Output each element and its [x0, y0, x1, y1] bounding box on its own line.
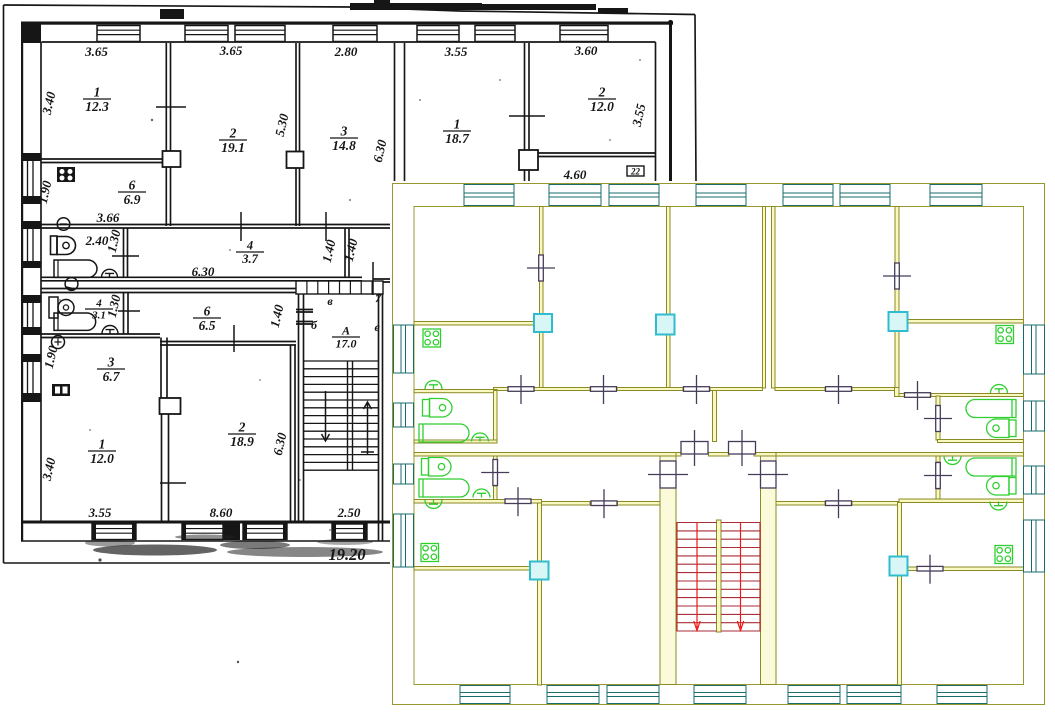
stove kitchen1 — [57, 167, 75, 182]
room label 3/6.7 — [97, 355, 125, 385]
scan frame right edge — [695, 15, 696, 184]
scan frame top edge — [4, 5, 696, 15]
wall corridor top 5 — [852, 388, 896, 391]
wall stairwell left wall a — [660, 456, 676, 461]
door corridor 2 — [591, 375, 617, 404]
windows: left wall — [394, 325, 414, 373]
svg-text:6: 6 — [204, 304, 211, 319]
wall V3b upper — [772, 207, 776, 389]
scan smudges bottom — [59, 59, 641, 663]
sink upper-right kitchen — [991, 385, 1008, 394]
windows: bottom band — [460, 686, 510, 704]
svg-text:6.5: 6.5 — [199, 318, 216, 333]
wall corridor top 0 — [494, 388, 509, 391]
CAD inner wall boundary — [414, 207, 1024, 685]
door lower-right room — [826, 489, 852, 518]
door bath lower-right — [924, 463, 952, 489]
room label 1/12.3 — [83, 85, 111, 115]
svg-text:12.0: 12.0 — [590, 99, 614, 114]
wall kitchen divider lower-left — [414, 567, 530, 571]
svg-text:3.66: 3.66 — [96, 210, 120, 225]
bottom wall window end bars — [92, 524, 367, 541]
exterior left wall inner line — [40, 42, 42, 522]
svg-text:22: 22 — [630, 167, 641, 177]
flue square room2/3 — [287, 152, 304, 169]
wall kitchen divider lower-right b — [943, 567, 1024, 571]
svg-text:18.9: 18.9 — [230, 434, 254, 449]
wall stairwell right wall a — [761, 456, 777, 461]
wall kitchen divider lower-right a — [907, 567, 918, 571]
exterior top wall outer line — [25, 22, 673, 25]
wall vestibule centre wall — [713, 391, 717, 442]
room label 6/6.9 — [118, 178, 146, 208]
vestibule door right — [729, 430, 756, 466]
wall corridor top 1 — [534, 388, 590, 391]
svg-text:4.60: 4.60 — [563, 167, 587, 182]
left wall window piers — [21, 153, 41, 402]
wall V3a upper — [763, 207, 766, 389]
sink bathroom1 — [102, 269, 118, 277]
wall bath upper-left right wall — [494, 391, 498, 441]
bathtub upper-right — [966, 400, 1016, 418]
sink lower-right bath — [944, 456, 961, 465]
svg-text:в: в — [327, 294, 333, 308]
wall bath lower-left bottom a — [414, 500, 505, 504]
wall corridor top 2 — [617, 388, 683, 391]
wall V2 upper a — [667, 207, 671, 315]
svg-text:6.9: 6.9 — [124, 192, 141, 207]
wall kitchen divider upper-right — [907, 320, 1024, 324]
top wall windows — [97, 26, 140, 42]
wall bath lower-left right wall a — [494, 456, 498, 460]
room label 2/12.0 — [588, 85, 616, 115]
toilet bathroom2 — [49, 297, 58, 318]
exterior right wall (x 655-672) — [669, 22, 672, 184]
wall bath upper-right left wall a — [936, 396, 940, 406]
stove upper-right — [996, 326, 1014, 344]
wall V1 upper c — [540, 332, 544, 389]
bottom wall room line — [21, 521, 391, 524]
wall room2/room3 — [296, 43, 300, 226]
wall bath lower-right left wall a — [936, 456, 940, 462]
room2c right wall — [291, 345, 296, 521]
door lower-left room — [591, 489, 617, 518]
svg-text:12.3: 12.3 — [85, 99, 109, 114]
flue square room1/6 — [163, 151, 181, 167]
wall bath lower-right bottom — [899, 499, 1024, 503]
bathtub lower-right — [966, 458, 1016, 476]
hall top wall (kitchen bottom) — [42, 225, 393, 229]
wall corridor bottom 2 — [709, 453, 730, 457]
wall room1/room2 — [166, 43, 170, 226]
svg-text:2: 2 — [238, 420, 246, 435]
wall V5 lower b — [538, 580, 542, 685]
wall V1 upper b — [540, 281, 544, 314]
door lower-right kitchen — [917, 555, 943, 584]
exterior left wall outer line — [21, 22, 23, 542]
door stairwell left — [648, 461, 688, 488]
staircase treads — [304, 361, 379, 470]
wall V4 upper b — [895, 289, 899, 312]
door bath upper-right — [924, 406, 952, 432]
wall bath lower-left bottom b — [531, 500, 542, 504]
wall V9 lower b — [898, 576, 902, 686]
room label 4/3.7 — [236, 239, 264, 267]
scan frame left edge — [3, 5, 5, 563]
toilet lower-right — [987, 477, 1017, 496]
svg-text:3.7: 3.7 — [241, 252, 258, 266]
dimension ticks — [112, 107, 545, 483]
wall corridor bottom 0 — [414, 453, 676, 457]
wall 1.40 divider — [345, 228, 349, 277]
top-left corner pier — [21, 22, 41, 44]
stove upper-left — [423, 329, 441, 347]
svg-text:2.80: 2.80 — [334, 44, 358, 59]
staircase left wall — [299, 294, 304, 521]
sink upper-left bath — [472, 433, 489, 442]
room label 2/18.9 — [228, 420, 256, 450]
svg-text:3.65: 3.65 — [219, 43, 243, 58]
stove room3b — [52, 384, 70, 396]
toilet bathroom1 — [51, 236, 58, 255]
wall lower-left room top a — [542, 502, 591, 506]
svg-text:2: 2 — [598, 85, 606, 100]
flue square room1b/2b — [519, 150, 538, 170]
svg-text:8.60: 8.60 — [210, 505, 233, 520]
vestibule door left — [681, 430, 708, 466]
staircase right wall — [379, 294, 383, 541]
wall V4 upper c — [895, 331, 899, 394]
svg-text:2.50: 2.50 — [337, 505, 361, 520]
wall lower-right room top b — [852, 502, 899, 506]
wall bath divider left — [414, 440, 497, 443]
room label 2/19.1 — [219, 126, 247, 156]
svg-text:6.30: 6.30 — [192, 264, 215, 279]
windows: right wall — [1024, 325, 1045, 374]
staircase (red) — [677, 523, 761, 632]
staircase up arrow — [361, 402, 374, 455]
wall corridor top 4 — [775, 388, 825, 391]
wall bath lower-left right wall b — [494, 486, 498, 500]
svg-text:4: 4 — [95, 298, 102, 310]
wall lower-right room top a — [776, 502, 825, 506]
bath bathroom1 — [54, 260, 97, 277]
wall V5 lower a — [538, 503, 542, 562]
svg-text:3.65: 3.65 — [84, 44, 108, 59]
sink bathroom2 — [102, 326, 118, 334]
door corridor 1 — [508, 375, 534, 404]
wall bath divider right — [938, 440, 1024, 443]
wall room3/room1b (apartment separation) — [395, 43, 405, 183]
svg-text:3.55: 3.55 — [88, 505, 112, 520]
apartment2 top wall — [42, 289, 297, 293]
torn black bar top — [160, 0, 628, 19]
bottom wall sill line — [21, 540, 392, 542]
door corridor 4 — [826, 375, 852, 404]
wall lower-left room top b — [618, 502, 661, 506]
wall kitchen divider upper-left — [414, 322, 534, 326]
staircase stringer — [348, 361, 353, 470]
exterior top wall inner line — [42, 41, 656, 43]
wall corridor jog vert — [895, 388, 900, 397]
wall V1 upper a — [540, 207, 544, 256]
wall corridor jog b — [931, 394, 1024, 397]
door bath lower-left — [481, 460, 509, 486]
flue square room3b/2c — [160, 398, 181, 414]
wall stair flight divider — [717, 520, 722, 632]
room label 3/14.8 — [330, 124, 358, 154]
wall V9 lower a — [898, 503, 902, 557]
svg-text:19.1: 19.1 — [221, 140, 245, 155]
door corridor 3 — [684, 375, 710, 404]
svg-text:19.20: 19.20 — [328, 545, 365, 564]
wall stairwell left wall b — [660, 488, 676, 685]
svg-text:18.7: 18.7 — [445, 131, 470, 146]
bathroom2 right wall — [124, 293, 129, 335]
sink lower-right kitchen — [990, 502, 1007, 511]
svg-text:6.7: 6.7 — [103, 369, 121, 384]
sink upper-left kitchen — [425, 381, 442, 390]
svg-text:14.8: 14.8 — [332, 138, 356, 153]
door corridor jog — [905, 381, 931, 410]
wall bath upper-right left wall b — [936, 431, 940, 440]
bathtub upper-left — [419, 424, 469, 442]
wall corridor top 3 — [710, 388, 763, 391]
sink lower-left bath — [473, 489, 490, 498]
CAD outer boundary — [393, 184, 1045, 705]
door upper-right room — [883, 263, 911, 289]
svg-text:1: 1 — [99, 437, 106, 452]
bath bathroom2 — [54, 313, 96, 330]
svg-text:б: б — [311, 318, 318, 332]
sink kitchen1 — [57, 218, 70, 231]
stove lower-right — [995, 546, 1013, 564]
toilet upper-right — [987, 419, 1017, 438]
room label A/17.0 — [332, 324, 360, 351]
svg-text:3: 3 — [340, 124, 348, 139]
flue boxes (cyan) — [534, 314, 552, 332]
svg-text:3.55: 3.55 — [444, 44, 468, 59]
scan frame bottom edge — [4, 562, 393, 564]
hall bottom wall — [42, 277, 363, 281]
wall V2 upper b — [667, 334, 671, 389]
wall kitchen upper-left bottom — [414, 390, 497, 393]
bottom wall windows — [92, 524, 136, 540]
bottom wall black pier — [223, 524, 240, 541]
CAD plan background — [390, 181, 1055, 707]
sink lower-left kitchen — [425, 500, 442, 509]
svg-text:1: 1 — [454, 117, 461, 132]
room label 4/3.1 — [85, 298, 113, 322]
wall corridor bottom 4 — [776, 453, 1024, 457]
svg-text:7: 7 — [375, 291, 382, 305]
room label 1/12.0 — [88, 437, 116, 467]
wall corridor bottom 1 — [676, 453, 681, 457]
entry vestibule hatched box — [296, 281, 383, 294]
svg-text:6: 6 — [129, 178, 136, 193]
svg-text:12.0: 12.0 — [90, 451, 114, 466]
bathroom2 bottom wall / room3b top — [42, 334, 161, 338]
wall room1b/room2b — [525, 43, 530, 183]
room label 6/6.5 — [193, 304, 221, 334]
wall corridor bottom 3 — [754, 453, 776, 457]
toilet upper-left — [423, 399, 453, 418]
left wall windows — [28, 161, 34, 196]
wall stairwell right wall b — [761, 488, 777, 685]
sink room3b — [52, 336, 65, 349]
bathroom1 right wall — [124, 228, 128, 277]
staircase down arrow — [322, 391, 330, 441]
staircase flight edge lines — [677, 523, 760, 632]
door blob — [65, 278, 78, 291]
room2b bottom wall — [538, 153, 656, 157]
svg-text:3: 3 — [107, 355, 115, 370]
staircase arrows — [694, 523, 700, 631]
room label 1/18.7 — [443, 117, 471, 147]
room6b bottom wall (room2c top) — [160, 342, 296, 346]
svg-text:1: 1 — [94, 85, 101, 100]
svg-text:17.0: 17.0 — [336, 337, 357, 351]
room3b right wall — [161, 338, 167, 399]
box 22 — [627, 166, 644, 176]
room1c/room2c wall — [162, 414, 169, 521]
windows: top band — [394, 185, 1045, 704]
toilet lower-left — [422, 458, 452, 477]
door lower-left kitchen — [505, 487, 531, 516]
door upper-left room — [527, 255, 555, 281]
apartment2 door stubs — [296, 310, 313, 325]
door stairwell right — [748, 461, 788, 488]
svg-text:3.60: 3.60 — [574, 43, 598, 58]
room1 bottom wall — [42, 159, 167, 163]
wall V4 upper a — [895, 207, 899, 264]
wall corridor jog a — [899, 394, 905, 397]
stove lower-left — [421, 544, 439, 562]
wall bath lower-right left wall b — [936, 489, 940, 500]
bathtub lower-left — [419, 479, 469, 497]
svg-text:4: 4 — [246, 239, 253, 253]
svg-text:А: А — [341, 324, 350, 338]
svg-text:2: 2 — [229, 126, 237, 141]
